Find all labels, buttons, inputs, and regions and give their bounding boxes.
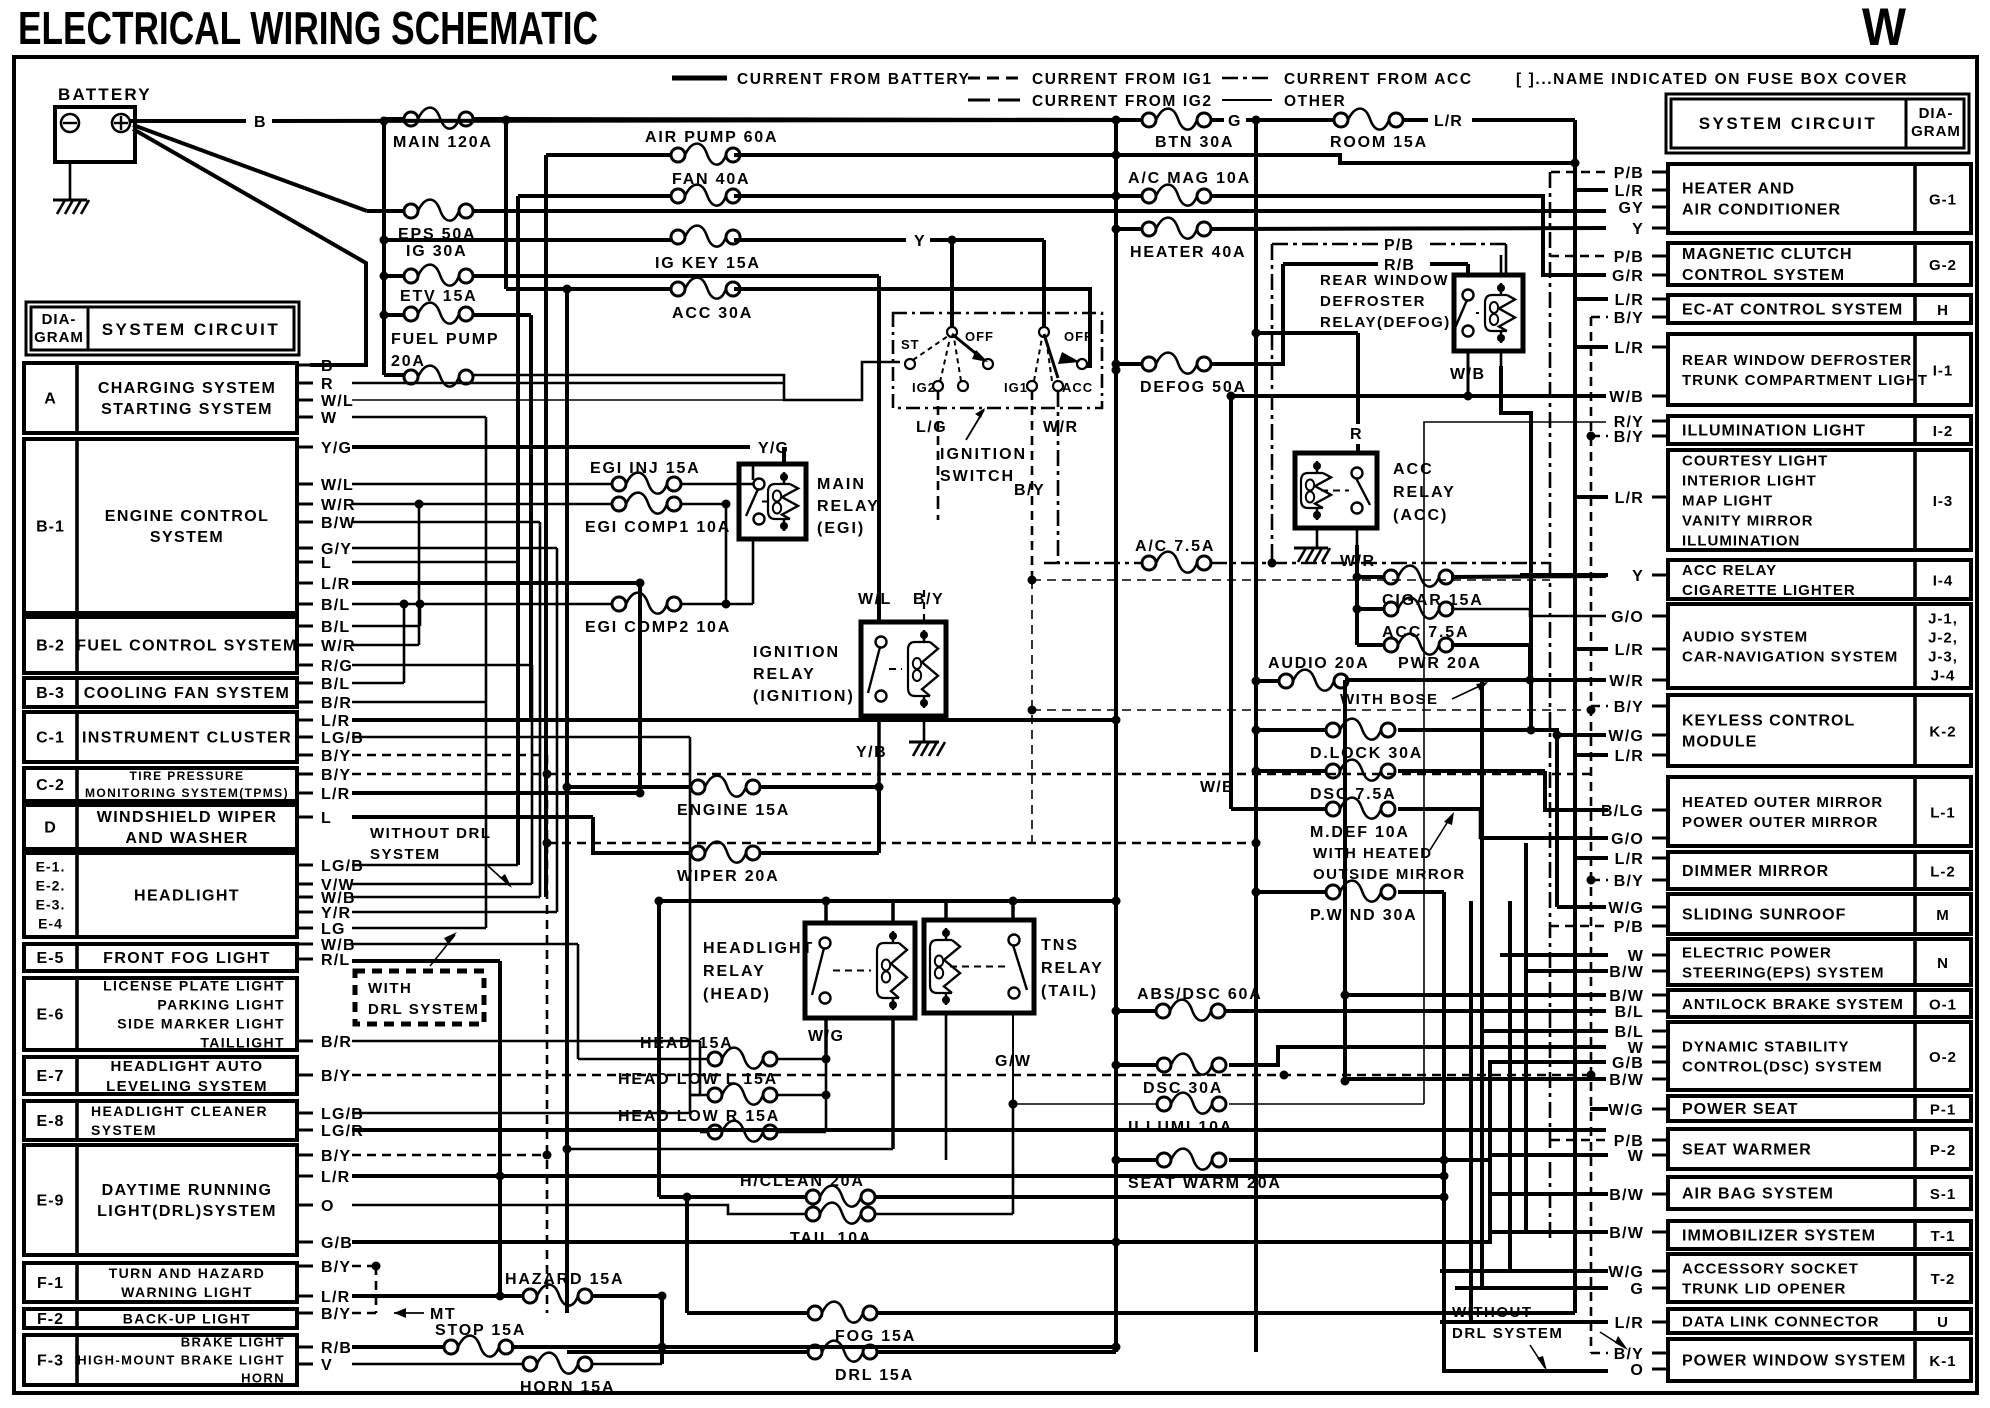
wire bus506 vertical bbox=[504, 120, 508, 289]
svg-text:IGNITION: IGNITION bbox=[940, 446, 1027, 463]
box F-3 brake light / horn bbox=[24, 1335, 297, 1385]
svg-text:AIR BAG SYSTEM: AIR BAG SYSTEM bbox=[1682, 1186, 1834, 1203]
wire P/B dashdot to defog relay bbox=[1272, 243, 1378, 246]
node Y/R left stub y=912 bbox=[297, 911, 313, 914]
node W/G right stub y=907 bbox=[1652, 906, 1668, 909]
svg-text:H: H bbox=[1937, 302, 1949, 319]
svg-text:GRAM: GRAM bbox=[1911, 123, 1961, 140]
wire ACC7.5 feed bbox=[1357, 607, 1384, 611]
svg-text:VANITY MIRROR: VANITY MIRROR bbox=[1682, 512, 1814, 529]
svg-text:B/Y: B/Y bbox=[1614, 1346, 1644, 1363]
fuse BTN 30A bbox=[1142, 109, 1211, 130]
fuse ENGINE 15A bbox=[691, 776, 760, 797]
svg-text:HEADLIGHT: HEADLIGHT bbox=[703, 940, 814, 957]
wire SEAT WARM out bbox=[1229, 1158, 1490, 1162]
fuse H/CLEAN 20A bbox=[806, 1186, 875, 1207]
svg-text:RELAY: RELAY bbox=[753, 666, 816, 683]
wire A/C MAG feed bbox=[1116, 194, 1142, 198]
legend: current from IG1 bbox=[968, 77, 1020, 80]
wire P/B G-2 input bbox=[1550, 255, 1608, 258]
svg-text:J-2,: J-2, bbox=[1928, 630, 1958, 647]
svg-text:B/Y: B/Y bbox=[1614, 310, 1644, 327]
svg-text:K-2: K-2 bbox=[1929, 724, 1956, 741]
ignition switch right rotor bbox=[1039, 327, 1049, 337]
legend: current from ACC bbox=[1222, 77, 1272, 80]
wire ignition L/G down bbox=[937, 391, 940, 500]
wire W/R row to EGI COMP1 fuse bbox=[352, 503, 612, 506]
wire right band vertical 1471 bbox=[1322, 900, 1471, 902]
svg-text:TRUNK LID OPENER: TRUNK LID OPENER bbox=[1682, 1280, 1846, 1297]
relay TNS RELAY (TAIL) bbox=[924, 920, 1034, 1013]
box F-2 back-up light bbox=[24, 1309, 297, 1328]
svg-text:I-4: I-4 bbox=[1933, 573, 1954, 590]
wire horn fuse out bbox=[592, 1363, 662, 1366]
wire DRL out bbox=[877, 1350, 1116, 1354]
wire L/R J input bbox=[1575, 647, 1608, 651]
fuse HEAD LOW R 15A bbox=[708, 1121, 777, 1142]
fuse ABS/DSC 60A bbox=[1156, 1000, 1225, 1021]
box I-3 courtesy/interior/map light bbox=[1668, 450, 1971, 550]
wire main relay switch top pin bbox=[752, 464, 755, 480]
svg-text:(ACC): (ACC) bbox=[1393, 507, 1448, 524]
wire engine control rows bundle bbox=[352, 521, 540, 524]
svg-text:ACCESSORY SOCKET: ACCESSORY SOCKET bbox=[1682, 1260, 1859, 1277]
svg-text:L/R: L/R bbox=[1615, 183, 1644, 200]
svg-text:B/Y: B/Y bbox=[1614, 873, 1644, 890]
battery bbox=[55, 107, 135, 162]
box G-2 magnetic clutch control system bbox=[1668, 243, 1971, 285]
node B/Y right stub y=317 bbox=[1652, 316, 1668, 319]
svg-text:FAN 40A: FAN 40A bbox=[672, 171, 750, 188]
svg-text:AUDIO 20A: AUDIO 20A bbox=[1268, 655, 1370, 672]
svg-text:IGNITION: IGNITION bbox=[753, 644, 840, 661]
svg-text:ANTILOCK BRAKE SYSTEM: ANTILOCK BRAKE SYSTEM bbox=[1682, 996, 1904, 1013]
svg-text:[ ]...NAME INDICATED ON FUSE B: [ ]...NAME INDICATED ON FUSE BOX COVER bbox=[1516, 71, 1908, 88]
node W left stub y=417 bbox=[297, 416, 313, 419]
svg-text:PARKING LIGHT: PARKING LIGHT bbox=[157, 996, 285, 1012]
wire bottom O run bbox=[1444, 892, 1606, 1371]
wire E-9 O row bbox=[352, 1205, 806, 1214]
svg-text:B: B bbox=[254, 114, 267, 131]
svg-text:HAZARD 15A: HAZARD 15A bbox=[505, 1271, 624, 1288]
svg-text:MODULE: MODULE bbox=[1682, 734, 1757, 751]
wire B/L row to EGI COMP2 fuse bbox=[352, 603, 612, 606]
node G right stub y=1288 bbox=[1652, 1287, 1668, 1290]
svg-text:L/R: L/R bbox=[1615, 748, 1644, 765]
svg-text:RELAY: RELAY bbox=[703, 963, 766, 980]
node L/R left stub y=1296 bbox=[297, 1295, 313, 1298]
svg-text:R/B: R/B bbox=[1384, 257, 1415, 274]
wire dashed from IG1 right bbox=[1032, 579, 1550, 581]
svg-text:ENGINE 15A: ENGINE 15A bbox=[677, 802, 790, 819]
svg-text:G/W: G/W bbox=[995, 1053, 1032, 1070]
svg-text:E-3.: E-3. bbox=[36, 896, 66, 912]
svg-text:P-2: P-2 bbox=[1930, 1142, 1956, 1159]
wire ROOM out L/R bbox=[1403, 118, 1428, 122]
node P/B right stub y=256 bbox=[1652, 255, 1668, 258]
svg-text:CONTROL SYSTEM: CONTROL SYSTEM bbox=[1682, 267, 1845, 284]
box J-1 audio system / car-navigation system bbox=[1668, 604, 1971, 688]
svg-text:Y: Y bbox=[1632, 221, 1644, 238]
node Y right stub y=575 bbox=[1652, 574, 1668, 577]
svg-text:N: N bbox=[1937, 955, 1949, 972]
node B/R left stub y=702 bbox=[297, 701, 313, 704]
wire right band vertical 1482 bbox=[1480, 680, 1484, 1288]
svg-text:DSC 30A: DSC 30A bbox=[1143, 1080, 1223, 1097]
wire HEAD LOW R feed bbox=[700, 1131, 708, 1134]
node B/Y left stub y=1075 bbox=[297, 1074, 313, 1077]
node G/Y left stub y=548 bbox=[297, 547, 313, 550]
svg-text:IG1: IG1 bbox=[1004, 380, 1028, 395]
node B left stub y=365 bbox=[297, 364, 313, 367]
wire trunk x1575 from room fuse bbox=[1573, 120, 1577, 1313]
svg-text:A/C 7.5A: A/C 7.5A bbox=[1135, 538, 1215, 555]
wire MAIN fuse input bbox=[384, 117, 404, 121]
relay REAR WINDOW DEFROSTER RELAY (DEFOG) bbox=[1454, 275, 1523, 351]
wire ABS/DSC out bbox=[1226, 1009, 1606, 1013]
svg-text:WITHOUT: WITHOUT bbox=[1452, 1304, 1532, 1321]
svg-text:L/R: L/R bbox=[321, 786, 350, 803]
wire dashed B/Y vertical right bbox=[1590, 317, 1593, 1353]
wire stop fuse out bbox=[511, 1345, 1116, 1349]
wire R row box A bbox=[352, 382, 784, 385]
node B/Y left stub y=774 bbox=[297, 773, 313, 776]
wire L/R U input bbox=[1440, 1320, 1608, 1324]
box H EC-AT control system bbox=[1668, 295, 1971, 323]
node LG/B left stub y=865 bbox=[297, 864, 313, 867]
wire A/C 7.5A dashdot row bbox=[1044, 562, 1142, 565]
svg-text:SYSTEM CIRCUIT: SYSTEM CIRCUIT bbox=[1699, 114, 1878, 133]
node L left stub y=817 bbox=[297, 816, 313, 819]
svg-text:B/W: B/W bbox=[1609, 1072, 1644, 1089]
svg-text:L-2: L-2 bbox=[1930, 864, 1956, 881]
fuse DSC 30A bbox=[1157, 1054, 1226, 1075]
svg-text:B/Y: B/Y bbox=[321, 767, 351, 784]
node L/R right stub y=497 bbox=[1652, 496, 1668, 499]
svg-text:Y: Y bbox=[1632, 568, 1644, 585]
svg-text:W/L: W/L bbox=[321, 393, 354, 410]
svg-text:LIGHT(DRL)SYSTEM: LIGHT(DRL)SYSTEM bbox=[97, 1203, 277, 1220]
node B/R left stub y=1041 bbox=[297, 1040, 313, 1043]
svg-text:G/O: G/O bbox=[1611, 831, 1644, 848]
node W/B right stub y=396 bbox=[1652, 395, 1668, 398]
wire DSC7.5 out bbox=[1398, 769, 1545, 773]
fuse FUEL PUMP 20A bbox=[404, 366, 473, 387]
wire ACC 30A row bbox=[506, 287, 671, 291]
box M sliding sunroof bbox=[1668, 894, 1971, 934]
wire AUDIO out bbox=[1345, 678, 1606, 682]
svg-text:E-4: E-4 bbox=[38, 915, 63, 931]
node B/W right stub y=995 bbox=[1652, 994, 1668, 997]
ignition switch label arrow bbox=[966, 410, 984, 440]
node L/R right stub y=755 bbox=[1652, 754, 1668, 757]
wire headlight coil bottom across bbox=[567, 1148, 893, 1151]
svg-text:GY: GY bbox=[1618, 200, 1644, 217]
node L/R left stub y=793 bbox=[297, 792, 313, 795]
wire HEAD out to W/G bbox=[777, 1058, 826, 1061]
wire vertical 518 bbox=[516, 196, 520, 865]
wire B/Y L-2 input bbox=[1591, 879, 1608, 882]
wire DSC30 feed bbox=[1116, 1063, 1157, 1067]
svg-text:B/W: B/W bbox=[1609, 1187, 1644, 1204]
node O left stub y=1205 bbox=[297, 1204, 313, 1207]
relay IGNITION RELAY (IGNITION) bbox=[861, 622, 946, 716]
wire acc relay switch top R bbox=[1252, 329, 1261, 338]
box E-8 headlight cleaner bbox=[24, 1101, 297, 1140]
node W/L left stub y=400 bbox=[297, 399, 313, 402]
wire P/B M input bbox=[1550, 925, 1608, 928]
svg-text:ACC: ACC bbox=[1393, 461, 1434, 478]
svg-text:LICENSE PLATE LIGHT: LICENSE PLATE LIGHT bbox=[103, 977, 285, 993]
wire B/Y H input bbox=[1591, 316, 1608, 319]
wire DSC30 out bbox=[1229, 1047, 1606, 1065]
wire ignition IG1 down bbox=[1031, 391, 1034, 580]
svg-text:M: M bbox=[1936, 907, 1950, 924]
wire H/CLEAN out bbox=[875, 1195, 1444, 1199]
node GY right stub y=207 bbox=[1652, 206, 1668, 209]
svg-text:SYSTEM: SYSTEM bbox=[150, 529, 224, 546]
wire B/W O-1 input bbox=[1345, 993, 1606, 997]
svg-text:FUEL PUMP: FUEL PUMP bbox=[391, 331, 499, 348]
box S-1 air bag system bbox=[1668, 1177, 1971, 1209]
wire L/R G-1 input bbox=[1575, 188, 1608, 192]
svg-text:AIR CONDITIONER: AIR CONDITIONER bbox=[1682, 202, 1841, 219]
svg-text:MAIN 120A: MAIN 120A bbox=[393, 134, 493, 151]
svg-text:TNS: TNS bbox=[1041, 937, 1079, 954]
node B/Y left stub y=1313 bbox=[297, 1312, 313, 1315]
node L/R right stub y=299 bbox=[1652, 298, 1668, 301]
svg-text:W/G: W/G bbox=[1608, 1102, 1644, 1119]
svg-text:MONITORING SYSTEM(TPMS): MONITORING SYSTEM(TPMS) bbox=[85, 786, 289, 800]
svg-text:G-1: G-1 bbox=[1929, 192, 1957, 209]
svg-text:W/R: W/R bbox=[1609, 673, 1644, 690]
wire W row box A bbox=[352, 416, 486, 419]
fuse CIGAR 15A bbox=[1384, 566, 1453, 587]
fuse PWR 20A bbox=[1384, 634, 1453, 655]
svg-text:IMMOBILIZER SYSTEM: IMMOBILIZER SYSTEM bbox=[1682, 1228, 1876, 1245]
svg-text:A/C MAG 10A: A/C MAG 10A bbox=[1128, 170, 1251, 187]
svg-text:L: L bbox=[321, 810, 332, 827]
svg-text:G/R: G/R bbox=[1612, 268, 1644, 285]
wire FUEL PUMP fuse row bbox=[384, 373, 404, 377]
svg-text:RELAY(DEFOG): RELAY(DEFOG) bbox=[1320, 314, 1451, 331]
box N electric power steering system bbox=[1668, 939, 1971, 985]
svg-text:B-1: B-1 bbox=[36, 519, 65, 536]
svg-text:ILLUMINATION LIGHT: ILLUMINATION LIGHT bbox=[1682, 423, 1866, 440]
wire TAIL out bbox=[875, 1213, 1013, 1216]
svg-text:J-1,: J-1, bbox=[1928, 611, 1958, 628]
svg-text:TURN AND HAZARD: TURN AND HAZARD bbox=[109, 1265, 266, 1281]
wire W/L row box A staircase bbox=[352, 399, 784, 401]
svg-text:W: W bbox=[321, 410, 337, 427]
box D windshield wiper and washer bbox=[24, 805, 297, 849]
svg-text:L/R: L/R bbox=[321, 1169, 350, 1186]
wire EGI COMP1 out bbox=[681, 503, 726, 506]
box K-2 keyless control module bbox=[1668, 695, 1971, 766]
box E-1..E-4 headlight bbox=[24, 853, 297, 937]
svg-text:FOG 15A: FOG 15A bbox=[835, 1328, 916, 1345]
svg-text:AUDIO SYSTEM: AUDIO SYSTEM bbox=[1682, 628, 1808, 645]
svg-text:WITHOUT DRL: WITHOUT DRL bbox=[370, 825, 491, 842]
svg-text:U: U bbox=[1937, 1314, 1949, 1331]
wire vertical 1557 to sliding sunroof bbox=[1555, 735, 1559, 907]
node B/Y right stub y=706 bbox=[1652, 705, 1668, 708]
svg-text:ELECTRICAL WIRING SCHEMATIC: ELECTRICAL WIRING SCHEMATIC bbox=[18, 2, 598, 54]
node LG/B left stub y=1113 bbox=[297, 1112, 313, 1115]
node W right stub y=955 bbox=[1652, 954, 1668, 957]
svg-text:MAP LIGHT: MAP LIGHT bbox=[1682, 492, 1773, 509]
node W/B left stub y=944 bbox=[297, 943, 313, 946]
svg-text:G/B: G/B bbox=[321, 1235, 353, 1252]
svg-text:LG: LG bbox=[321, 921, 346, 938]
svg-text:WITH: WITH bbox=[368, 980, 412, 997]
svg-text:W/R: W/R bbox=[321, 638, 356, 655]
svg-text:R: R bbox=[1350, 426, 1363, 443]
wire L D row bbox=[352, 815, 593, 819]
wire battery diagonal to charging system B bbox=[133, 129, 366, 365]
wire acc bank vertical bbox=[1355, 577, 1359, 645]
box T-2 accessory socket / trunk lid opener bbox=[1668, 1254, 1971, 1302]
wire HEAD 15A feed bbox=[578, 1058, 708, 1061]
svg-text:W/G: W/G bbox=[808, 1028, 845, 1045]
wire B/LG L-1 input bbox=[1545, 808, 1608, 812]
svg-text:L: L bbox=[321, 555, 332, 572]
wire E-5 rows bbox=[352, 943, 578, 946]
svg-text:I-3: I-3 bbox=[1933, 493, 1954, 510]
svg-text:LG/B: LG/B bbox=[321, 1106, 364, 1123]
svg-text:REAR WINDOW: REAR WINDOW bbox=[1320, 272, 1449, 289]
svg-text:TRUNK COMPARTMENT LIGHT: TRUNK COMPARTMENT LIGHT bbox=[1682, 372, 1928, 389]
svg-text:R: R bbox=[321, 376, 334, 393]
wire Y I-4 input bbox=[1520, 573, 1608, 577]
svg-text:G: G bbox=[1630, 1281, 1644, 1298]
svg-text:DAYTIME RUNNING: DAYTIME RUNNING bbox=[102, 1182, 273, 1199]
wire dashed B/Y row 710 bbox=[1032, 709, 1591, 711]
wire TNS relay pins bbox=[944, 901, 948, 920]
node R left stub y=383 bbox=[297, 382, 313, 385]
wire right band vertical 1526 bbox=[1524, 843, 1528, 1232]
wire E-7 B/Y dashed bbox=[352, 1074, 1591, 1077]
svg-text:DYNAMIC STABILITY: DYNAMIC STABILITY bbox=[1682, 1038, 1850, 1055]
wire E-8 LG/R bbox=[352, 1128, 1606, 1132]
fuse IG 30A bbox=[404, 265, 473, 286]
wire bus battery feed vertical bbox=[382, 121, 386, 375]
svg-text:D: D bbox=[44, 820, 57, 837]
svg-text:R/G: R/G bbox=[321, 658, 353, 675]
wire ENGINE fuse out bbox=[760, 785, 879, 789]
wire HEATER out to Y bbox=[1211, 228, 1606, 229]
box C-1 instrument cluster bbox=[24, 712, 297, 762]
svg-text:R/B: R/B bbox=[321, 1340, 352, 1357]
svg-text:B/L: B/L bbox=[1615, 1024, 1644, 1041]
svg-text:ELECTRIC POWER: ELECTRIC POWER bbox=[1682, 944, 1832, 961]
wire W/L vertical to ignition relay bbox=[877, 276, 881, 622]
wire ENGINE fuse input bbox=[567, 785, 691, 789]
svg-text:KEYLESS CONTROL: KEYLESS CONTROL bbox=[1682, 713, 1855, 730]
wire W/L row to EGI INJ fuse bbox=[352, 483, 612, 486]
node W/G right stub y=735 bbox=[1652, 734, 1668, 737]
svg-text:WITH HEATED: WITH HEATED bbox=[1313, 845, 1433, 862]
svg-text:W/G: W/G bbox=[1608, 1264, 1644, 1281]
ground (ignition relay) bbox=[909, 741, 939, 744]
wire ignition IG2 down bbox=[937, 500, 940, 520]
node G/O right stub y=616 bbox=[1652, 615, 1668, 618]
svg-text:W: W bbox=[1862, 0, 1906, 57]
svg-text:ACC RELAY: ACC RELAY bbox=[1682, 562, 1777, 579]
svg-text:ILLUMINATION: ILLUMINATION bbox=[1682, 532, 1800, 549]
svg-text:DIMMER MIRROR: DIMMER MIRROR bbox=[1682, 863, 1829, 880]
svg-text:DRL SYSTEM: DRL SYSTEM bbox=[368, 1001, 479, 1018]
box I-1 rear window defroster / trunk compartment light bbox=[1668, 334, 1971, 405]
box A charging/starting system bbox=[24, 363, 297, 433]
wire W P-2 input bbox=[1490, 1153, 1608, 1157]
node W/L left stub y=484 bbox=[297, 483, 313, 486]
wire SEAT WARM feed bbox=[1116, 1158, 1157, 1162]
label WITH DRL SYSTEM dashed box bbox=[355, 971, 484, 1024]
svg-text:Y: Y bbox=[914, 233, 926, 250]
box L-2 dimmer mirror bbox=[1668, 852, 1971, 889]
wire B/L O-2 input bbox=[1480, 1029, 1608, 1033]
svg-text:DIA-: DIA- bbox=[1919, 105, 1954, 122]
wire headlight relay top feed bbox=[659, 899, 1116, 903]
svg-text:I-1: I-1 bbox=[1933, 363, 1954, 380]
svg-text:G-2: G-2 bbox=[1929, 257, 1957, 274]
wire DSC7.5 feed bbox=[1256, 769, 1326, 773]
svg-text:F-1: F-1 bbox=[37, 1275, 64, 1292]
relay ACC RELAY (ACC) bbox=[1295, 453, 1377, 528]
wire B/Y dashed C-1 bbox=[352, 754, 547, 757]
node G/B right stub y=1062 bbox=[1652, 1061, 1668, 1064]
wire dashdot vertical 1550 bbox=[1549, 172, 1552, 1241]
node LG/B left stub y=737 bbox=[297, 736, 313, 739]
svg-text:W/G: W/G bbox=[1608, 728, 1644, 745]
wire R vertical from acc area bbox=[1355, 332, 1359, 336]
wire FOG fuse feed bbox=[687, 1311, 808, 1315]
svg-text:HEAD LOW L 15A: HEAD LOW L 15A bbox=[618, 1071, 778, 1088]
svg-text:LG/B: LG/B bbox=[321, 858, 364, 875]
box G-1 heater and air conditioner bbox=[1668, 164, 1971, 233]
wire vertical 687 bbox=[685, 1197, 689, 1313]
box B-2 fuel control system bbox=[24, 617, 297, 673]
svg-text:TAIL 10A: TAIL 10A bbox=[790, 1230, 872, 1247]
box E-7 headlight auto leveling bbox=[24, 1057, 297, 1094]
svg-text:INSTRUMENT CLUSTER: INSTRUMENT CLUSTER bbox=[82, 730, 292, 747]
svg-text:ENGINE CONTROL: ENGINE CONTROL bbox=[105, 508, 270, 525]
wire G/O L-1 input bbox=[1480, 836, 1608, 840]
svg-text:G: G bbox=[1228, 113, 1241, 130]
wire defog relay coil pins bbox=[1500, 255, 1503, 275]
fuse DRL 15A bbox=[808, 1341, 877, 1362]
svg-text:DRL SYSTEM: DRL SYSTEM bbox=[1452, 1325, 1563, 1342]
svg-text:HEADLIGHT AUTO: HEADLIGHT AUTO bbox=[111, 1058, 264, 1075]
svg-text:P/B: P/B bbox=[1614, 919, 1644, 936]
wire comp1-comp2 link vertical bbox=[725, 504, 728, 604]
svg-text:CONTROL(DSC) SYSTEM: CONTROL(DSC) SYSTEM bbox=[1682, 1058, 1883, 1075]
node B/W right stub y=1232 bbox=[1652, 1231, 1668, 1234]
wire FAN row bbox=[518, 194, 671, 198]
fuse TAIL 10A bbox=[806, 1203, 875, 1224]
svg-text:C-2: C-2 bbox=[36, 777, 65, 794]
svg-text:P-1: P-1 bbox=[1930, 1102, 1956, 1119]
wire L/R C-1 row bbox=[352, 718, 1116, 722]
ignition switch box bbox=[893, 313, 1102, 408]
svg-text:L/G: L/G bbox=[916, 419, 947, 436]
svg-text:SLIDING SUNROOF: SLIDING SUNROOF bbox=[1682, 907, 1846, 924]
wire acc relay coil bottom to ground bbox=[1316, 528, 1319, 548]
wire ignition relay coil top B/Y bbox=[923, 590, 925, 622]
node L/R left stub y=583 bbox=[297, 582, 313, 585]
svg-text:B/Y: B/Y bbox=[321, 1068, 351, 1085]
